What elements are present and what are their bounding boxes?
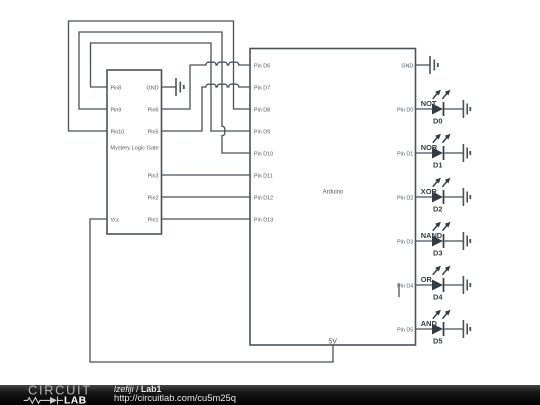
footer bar (0, 385, 540, 405)
svg-text:http://circuitlab.com/cu5m25q: http://circuitlab.com/cu5m25q (114, 392, 236, 403)
svg-text:D4: D4 (433, 292, 443, 301)
wire Arduino pin to LED D4 anode (416, 284, 433, 286)
ground symbol at LED D3 cathode (444, 232, 470, 250)
svg-text:D5: D5 (433, 336, 442, 345)
wire U1.Pin3 to Arduino Pin D11 (162, 174, 251, 176)
wire U1.Pin6 to Arduino Pin D6 with three hops (162, 62, 251, 109)
svg-text:Arduino: Arduino (323, 190, 344, 196)
svg-text:GND: GND (147, 85, 159, 91)
svg-text:5V: 5V (328, 339, 337, 346)
svg-text:D3: D3 (433, 248, 442, 257)
svg-text:NOT: NOT (421, 99, 437, 108)
svg-text:Pin D0: Pin D0 (397, 108, 413, 114)
svg-text:Mystery Logic Gate: Mystery Logic Gate (110, 145, 158, 151)
Arduino pin labels (254, 63, 413, 345)
svg-text:Pin D8: Pin D8 (254, 107, 270, 113)
LED D2 (XOR indicator) (421, 178, 451, 214)
svg-text:Pin5: Pin5 (148, 129, 159, 135)
svg-text:Pin9: Pin9 (111, 107, 122, 113)
wire U1.Pin10 to top rail (outer loop) to Arduino Pin D8 (69, 21, 251, 131)
LED D4 (OR indicator) (421, 266, 451, 302)
svg-text:Pin D7: Pin D7 (254, 85, 270, 91)
svg-text:Pin1: Pin1 (148, 217, 159, 223)
ground symbol at LED D4 cathode (444, 276, 470, 294)
CircuitLab logo resistor glyph (24, 396, 63, 404)
svg-text:D1: D1 (433, 160, 442, 169)
svg-text:Pin3: Pin3 (148, 173, 159, 179)
svg-text:Pin D1: Pin D1 (397, 152, 413, 158)
ground symbol at LED D5 cathode (444, 320, 470, 338)
ground symbol at LED D1 cathode (444, 144, 470, 162)
wire U1.Pin1 to Arduino Pin D13 (162, 218, 251, 220)
svg-text:OR: OR (421, 275, 433, 284)
LED D3 (NAND indicator) (421, 222, 451, 258)
LED D5 (AND indicator) (421, 310, 451, 346)
mystery logic gate U1 (box) (107, 70, 162, 234)
svg-text:Pin D13: Pin D13 (254, 217, 273, 223)
wire Arduino pin to LED D1 anode (416, 152, 433, 154)
svg-text:Pin D10: Pin D10 (254, 151, 273, 157)
svg-text:NOR: NOR (421, 143, 438, 152)
Arduino U2 (box) (250, 49, 416, 346)
ground symbol at LED D2 cathode (444, 188, 470, 206)
svg-text:Pin2: Pin2 (148, 195, 159, 201)
svg-text:Pin D4: Pin D4 (397, 284, 413, 290)
wire U1.Pin2 to Arduino Pin D12 (162, 196, 251, 198)
dangling wire stub near Pin D4 (398, 284, 400, 297)
svg-text:Vcc: Vcc (111, 217, 120, 223)
svg-text:D2: D2 (433, 204, 442, 213)
CircuitLab logo diode glyph (50, 397, 57, 404)
svg-text:Pin10: Pin10 (111, 129, 125, 135)
svg-text:XOR: XOR (421, 187, 438, 196)
svg-text:AND: AND (421, 319, 438, 328)
ground symbol at Arduino GND (416, 56, 438, 74)
svg-text:LAB: LAB (64, 396, 87, 405)
wire U1.Pin9 to top rail (middle loop) to Arduino Pin D10, hop over D9 wire (79, 32, 250, 153)
wire Arduino pin to LED D5 anode (416, 328, 433, 330)
wire node to Arduino Pin D9 (211, 130, 250, 132)
svg-text:Pin6: Pin6 (148, 107, 159, 113)
svg-text:NAND: NAND (421, 231, 443, 240)
wire Arduino pin to LED D0 anode (416, 108, 433, 110)
svg-text:GND: GND (401, 64, 413, 70)
svg-text:Pin D11: Pin D11 (254, 173, 273, 179)
svg-text:Pin D2: Pin D2 (397, 196, 413, 202)
wire Arduino pin to LED D2 anode (416, 196, 433, 198)
LED D1 (NOR indicator) (421, 134, 451, 170)
LED D0 (NOT indicator) (421, 90, 451, 126)
svg-text:Pin D12: Pin D12 (254, 195, 273, 201)
wire U1.Pin8 to top rail (inner loop) down to node at D9 row (91, 43, 212, 131)
svg-text:Pin D6: Pin D6 (254, 63, 270, 69)
svg-text:Pin D5: Pin D5 (397, 328, 413, 334)
wire U1.Pin5 to Arduino Pin D7 with three hops (162, 84, 251, 131)
wire Arduino pin to LED D3 anode (416, 240, 433, 242)
U1 pin labels (110, 85, 158, 223)
ground symbol at U1.GND (162, 78, 184, 96)
svg-text:Pin D9: Pin D9 (254, 129, 270, 135)
ground symbol at LED D0 cathode (444, 100, 470, 118)
svg-text:D0: D0 (433, 116, 442, 125)
svg-text:Pin D3: Pin D3 (397, 240, 413, 246)
wire U1.Vcc to Arduino 5V via bottom rail (90, 219, 333, 362)
svg-text:Pin8: Pin8 (111, 85, 122, 91)
CircuitLab logo diode glyph cathode (57, 396, 59, 404)
